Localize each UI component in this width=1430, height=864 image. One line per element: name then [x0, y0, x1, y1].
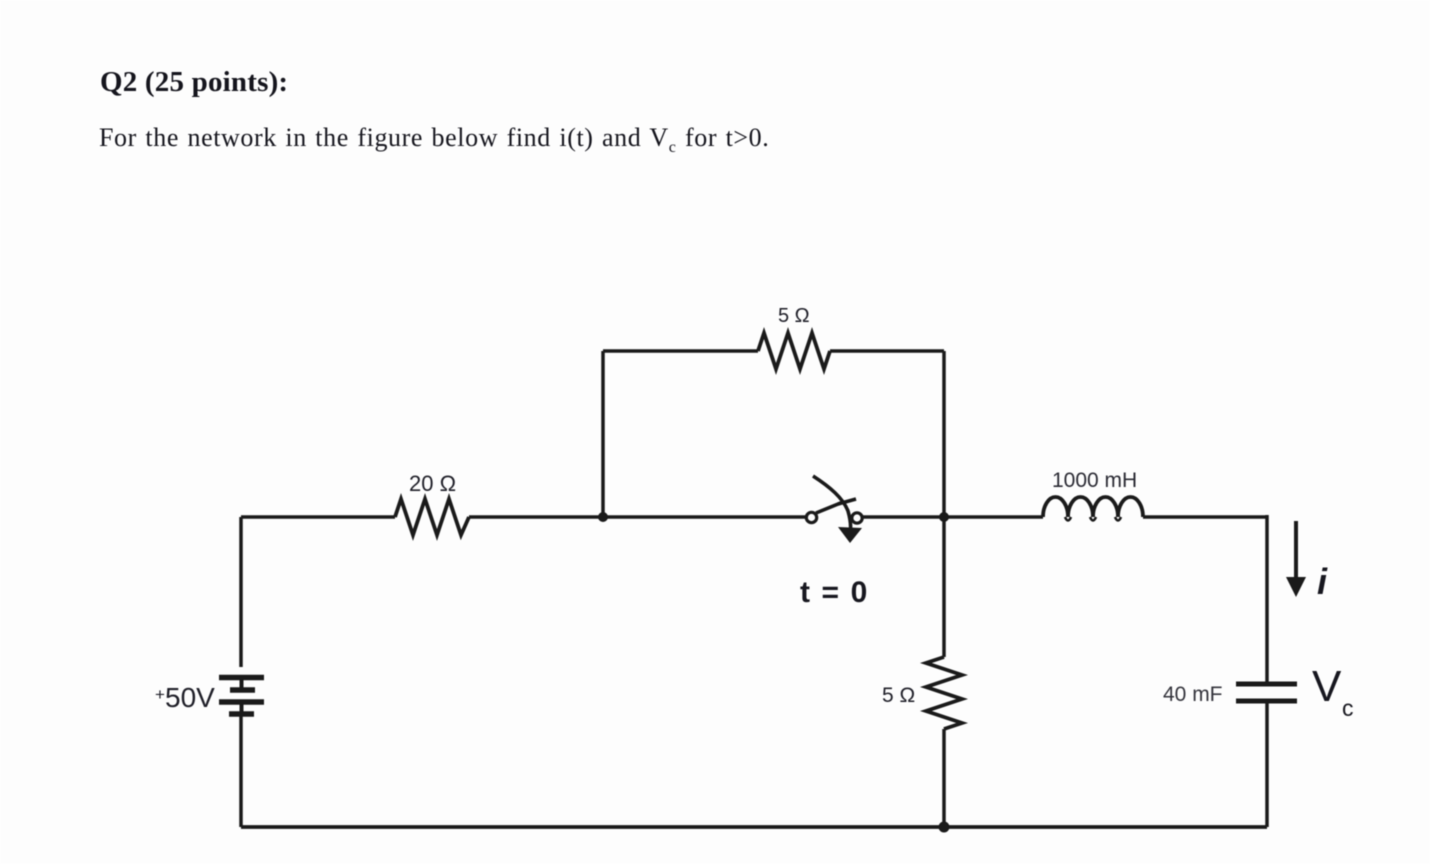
svg-text:i: i: [1317, 561, 1328, 602]
wire middle vertical lower: [942, 729, 946, 827]
svg-text:1000 mH: 1000 mH: [1052, 469, 1137, 492]
junction node bottom of middle branch: [939, 822, 950, 833]
wire inductor to top-right corner: [1143, 515, 1267, 519]
switch (opens/closes at t=0): [806, 476, 862, 543]
wire top-right horizontal segment: [830, 349, 944, 353]
wire top loop right vertical: [942, 351, 946, 517]
capacitor 40 mF plates: [1236, 684, 1297, 701]
resistor 5 ohm (middle vertical) zigzag: [926, 657, 962, 729]
heading Q2 (25 points):: [100, 66, 288, 99]
svg-text:40 mF: 40 mF: [1163, 683, 1223, 706]
wire middle branch left segment: [241, 515, 395, 519]
wire left vertical upper: [239, 517, 243, 667]
inductor 1000 mH coils: [1043, 497, 1143, 517]
svg-text:5 Ω: 5 Ω: [778, 305, 810, 327]
wire top loop left vertical: [601, 351, 605, 517]
wire right vertical lower: [1265, 701, 1269, 827]
wire switch to inductor (through middle junction): [862, 515, 1043, 519]
svg-text:20 Ω: 20 Ω: [409, 471, 456, 496]
wire top-left horizontal segment: [603, 349, 758, 353]
resistor 5 ohm (top) zigzag: [758, 333, 830, 369]
inductor cusp dips: [1065, 517, 1121, 521]
wire middle vertical upper: [942, 517, 946, 657]
svg-text:+: +: [155, 685, 165, 704]
svg-text:t = 0: t = 0: [800, 576, 869, 609]
label +50V: [155, 682, 215, 713]
current arrow i (downward): [1286, 521, 1306, 597]
wire 20 ohm to switch: [469, 515, 806, 519]
svg-text:c: c: [1342, 695, 1354, 721]
resistor 20 ohm zigzag: [395, 499, 469, 535]
junction node at top of middle resistor branch: [598, 512, 608, 522]
battery 50V source: [219, 677, 264, 714]
svg-text:5 Ω: 5 Ω: [882, 684, 915, 707]
wire left vertical lower: [239, 714, 243, 827]
problem statement text: [99, 123, 769, 157]
junction node middle cross: [939, 512, 949, 522]
wire right vertical upper (to capacitor): [1265, 515, 1269, 684]
svg-text:V: V: [1312, 662, 1342, 711]
wire bottom branch: [241, 825, 1267, 829]
label Vc: [1312, 662, 1354, 721]
svg-text:50V: 50V: [165, 682, 215, 713]
